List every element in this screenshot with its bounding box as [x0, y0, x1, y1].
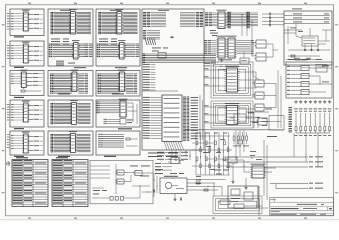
net rows D top-right	[180, 12, 203, 27]
label rows D left of MCU	[143, 97, 162, 139]
sub box N1	[230, 114, 252, 123]
latch U5	[69, 9, 77, 34]
resistor pack wires right	[294, 113, 331, 136]
output wires G	[309, 66, 332, 93]
block outline C4	[96, 131, 140, 155]
sub box D1	[158, 53, 166, 59]
label rows C1	[99, 39, 117, 45]
gate U19a	[254, 80, 266, 87]
wires A1 pins to buffer	[14, 13, 24, 29]
block outline H bottom	[228, 186, 258, 208]
wire A1 out 1	[40, 18, 44, 20]
junction column	[169, 152, 175, 160]
analog mesh links	[192, 133, 232, 175]
node labels J2 input net labels	[7, 45, 10, 59]
block outline B4	[48, 131, 93, 155]
wires A5 pins to buffer	[14, 135, 24, 148]
labels above X1	[170, 172, 184, 175]
pins B4	[51, 134, 54, 152]
wire A3 out	[25, 90, 41, 92]
wires M-top right	[227, 13, 259, 26]
value label C2	[112, 93, 124, 94]
diodes F	[304, 44, 320, 51]
pin label column G right	[289, 107, 292, 132]
value label C4	[104, 156, 116, 157]
buffer U A4	[22, 101, 30, 122]
wires F lower	[288, 24, 330, 57]
block outline A2	[10, 41, 44, 66]
value label A2	[14, 67, 24, 68]
net label A5-1	[34, 140, 40, 143]
wires U23 out	[130, 166, 153, 174]
connector pins A5	[11, 135, 13, 149]
net labels A3	[33, 73, 43, 86]
wire X1 down	[174, 194, 176, 198]
loop traces bottom	[213, 196, 262, 214]
net labels B1 lower right	[85, 44, 93, 57]
datum symbol	[6, 162, 10, 166]
buffer U10	[118, 70, 126, 92]
wires C2 left	[101, 74, 120, 93]
wire H down	[259, 186, 268, 215]
resistor R4	[126, 138, 130, 140]
latch U5b	[72, 40, 80, 59]
net label A4-1	[34, 109, 40, 112]
net labels C1 lower right	[136, 44, 140, 57]
net labels B2 right	[85, 74, 89, 94]
bus D mid	[142, 54, 216, 63]
crystal loop traces 2	[211, 101, 253, 128]
caps F input	[262, 13, 284, 27]
resistor pack RP2	[92, 197, 140, 201]
pins B3	[51, 103, 54, 124]
table header J6	[56, 157, 68, 158]
net label A5-2	[34, 144, 40, 147]
buffer U A1	[22, 10, 30, 31]
sub box F1	[302, 36, 318, 46]
pin numbers U15 right a	[183, 97, 186, 141]
title B1	[60, 10, 71, 11]
pin column M3	[247, 12, 250, 28]
wire A2 out 3	[40, 59, 44, 61]
connector pins A3	[11, 74, 13, 85]
net label A2-0	[34, 45, 40, 48]
wires risers	[214, 140, 267, 200]
wires N verticals	[230, 130, 244, 160]
bus wires B1 lower left	[53, 44, 74, 57]
wire A2 out 2	[40, 55, 44, 57]
counter U13	[217, 36, 227, 58]
wires A4 pins to buffer	[14, 104, 24, 120]
long wire right2	[270, 182, 323, 185]
output wires A2	[29, 47, 34, 61]
wire rows F	[284, 14, 330, 24]
sub rects H	[231, 189, 253, 202]
wire A5 out 1	[40, 140, 44, 142]
block outline B3	[48, 100, 93, 127]
net rows D left lower	[143, 30, 160, 39]
connector marks D	[145, 38, 156, 45]
module X1	[160, 176, 187, 194]
wires C4	[98, 135, 124, 148]
wires C1 right	[123, 12, 137, 33]
wires B4 left	[54, 134, 71, 151]
octal buffer U12	[217, 10, 227, 29]
wire A4 out 2	[40, 114, 44, 116]
ground M	[220, 59, 223, 62]
connector table J5	[12, 160, 48, 207]
connector pins B1 left	[51, 12, 54, 34]
wires B2 left	[54, 74, 73, 93]
crystal loop traces 1	[211, 62, 253, 98]
wires B4 right	[77, 134, 91, 151]
value label A4	[14, 128, 24, 129]
net label A4-0	[34, 104, 40, 107]
wires A3	[14, 74, 22, 84]
net label A4-3	[34, 118, 40, 121]
ground X1	[173, 198, 176, 201]
wires D-to-hub verticals	[172, 150, 181, 164]
gate U19c	[254, 104, 266, 111]
connector pins A1	[11, 13, 13, 30]
resistor R21	[204, 189, 208, 191]
pins C1 lower	[97, 44, 101, 58]
net labels C2 right	[134, 74, 138, 94]
gate U22b	[116, 179, 126, 184]
value label A1	[14, 36, 24, 37]
components in loop	[220, 200, 262, 209]
bus wires B1 right	[77, 12, 91, 33]
value label B1	[74, 67, 86, 68]
wires C2 right	[126, 74, 133, 93]
buffer U A2	[22, 42, 30, 63]
title C1	[110, 10, 121, 11]
wire A4 out 0	[40, 105, 44, 107]
label rows D mid2	[143, 64, 156, 90]
output wires A5	[29, 137, 34, 151]
analog mesh vertical wires	[196, 132, 230, 175]
block outline B2	[48, 71, 93, 97]
block outline A3	[10, 71, 44, 96]
labels M cluster	[210, 30, 218, 36]
long wire right3	[276, 184, 323, 189]
net label A1-0	[34, 13, 40, 16]
value label C1	[115, 67, 127, 68]
pin fan U15 bottom	[164, 142, 184, 151]
wire A2 out 1	[40, 50, 44, 52]
wires B3 right	[78, 103, 91, 123]
wires B3 left	[54, 103, 72, 123]
latch U9b	[118, 40, 126, 59]
capacitor C12	[180, 198, 181, 201]
wire A3 vert	[23, 88, 25, 90]
gate U19b	[254, 92, 266, 99]
regulator U30	[250, 164, 265, 178]
wires C3 lower	[104, 119, 121, 124]
counter U14	[227, 36, 237, 58]
wires U19	[252, 83, 276, 108]
sub box C3b	[120, 119, 133, 125]
bus wires B1 left	[54, 12, 71, 33]
resistor R3	[21, 90, 25, 92]
block outline B1	[48, 9, 93, 66]
wires right of U15	[200, 95, 203, 140]
ground PW1	[231, 180, 234, 183]
block outline C2	[96, 71, 140, 97]
component row G below	[295, 100, 332, 104]
output wires A3	[27, 74, 33, 86]
wires gate area left	[90, 164, 116, 194]
wires B2 right	[78, 74, 84, 93]
pins C2	[98, 74, 101, 94]
wire A1 out 0	[40, 14, 44, 16]
latch U9	[115, 9, 123, 34]
title G	[295, 59, 307, 60]
pins C1	[98, 12, 101, 34]
wire A2 out 0	[40, 46, 44, 48]
value label B2	[58, 93, 70, 94]
wire A1 out 3	[40, 27, 44, 29]
wires bottom net	[187, 176, 226, 190]
labels mesh right	[214, 151, 262, 174]
labels N1 area	[248, 112, 260, 128]
flip-flop U18	[255, 53, 268, 61]
value label C3	[118, 128, 132, 129]
pins D mid	[143, 54, 145, 63]
block outline A1	[10, 9, 44, 36]
net label A5-0	[34, 135, 40, 138]
net labels M-top left	[205, 13, 216, 27]
wire A4 out 3	[40, 118, 44, 120]
output wires A4	[29, 106, 34, 120]
node D sheet label	[171, 37, 174, 39]
net labels M-mid left	[204, 40, 216, 54]
wires C1 lower	[101, 44, 120, 57]
node labels J4 input net labels	[7, 134, 10, 148]
labels C4	[98, 134, 103, 147]
microprocessor U15	[162, 95, 182, 142]
node labels J1 input net labels	[7, 13, 10, 29]
oscillator Y2	[225, 103, 240, 124]
wires into loop 1	[204, 68, 256, 88]
block outline C3	[96, 100, 140, 127]
value label B4	[58, 156, 70, 157]
block outline D	[142, 9, 204, 150]
gate column G	[301, 66, 309, 95]
output wires A1	[29, 15, 34, 29]
wires ladder drops	[294, 133, 318, 167]
wire A5 out 3	[40, 149, 44, 151]
net label A1-3	[34, 27, 40, 30]
buffer U6	[70, 70, 78, 92]
power components	[222, 157, 244, 163]
labels F bottom	[288, 58, 322, 61]
net label A1-2	[34, 22, 40, 25]
loop area label	[218, 59, 232, 60]
net label A2-3	[34, 59, 40, 62]
block outline A5	[10, 131, 44, 155]
resistor RF1	[291, 55, 295, 57]
wires C1 left	[101, 12, 117, 33]
capacitor C13	[153, 190, 154, 193]
resistor R20	[196, 182, 200, 184]
wire A5 out 2	[40, 145, 44, 147]
wires F mid extra	[284, 26, 332, 60]
pin numbers U15 right b	[187, 97, 190, 141]
buffer U A5	[22, 132, 30, 153]
connector pins A2	[11, 45, 13, 59]
sub box N2	[246, 109, 284, 137]
wires U22	[126, 173, 136, 182]
table header J5	[16, 157, 28, 158]
wires U20	[250, 121, 281, 123]
wires C3 right	[128, 103, 138, 124]
input wires G	[287, 66, 301, 95]
labels under U15	[148, 153, 178, 158]
label row G below	[294, 109, 331, 112]
mesh fan from U15	[185, 150, 190, 160]
pins B2	[50, 74, 53, 94]
net labels U15 right	[191, 97, 199, 139]
net hub labels	[155, 152, 188, 171]
pins B1 lower	[49, 44, 53, 58]
wire C4	[126, 139, 138, 146]
wires left of X1	[153, 173, 157, 197]
net label A1-1	[34, 18, 40, 21]
title block	[270, 198, 334, 216]
flip-flop U17	[255, 40, 268, 48]
long wires right1	[226, 156, 323, 167]
buffer U A3	[20, 70, 28, 88]
wire bus center horizontal	[185, 129, 284, 131]
labels gate area bottom left	[92, 188, 107, 194]
block outline G right	[286, 62, 332, 98]
wires M drops	[242, 15, 252, 36]
node labels J3 input net labels	[7, 104, 10, 120]
sub box M6	[240, 52, 249, 64]
wire A4 out 1	[40, 109, 44, 111]
wires into loop 2	[204, 105, 254, 123]
wires center verticals	[253, 70, 281, 128]
wire A1 out 2	[40, 23, 44, 25]
gate U20	[257, 118, 269, 125]
labels D mid	[152, 48, 168, 52]
net label A2-1	[34, 50, 40, 53]
wires M-mid right	[237, 40, 254, 54]
wires U17 U18	[252, 28, 278, 57]
ground PW2	[244, 186, 247, 189]
net labels B1 right	[89, 12, 91, 34]
wires A2 pins to buffer	[14, 45, 24, 58]
value label A5	[14, 156, 24, 157]
block outline A4	[10, 100, 44, 127]
labels B1 lower	[56, 61, 75, 66]
wire A5 out 0	[40, 136, 44, 138]
connector pins A4	[11, 104, 13, 121]
wires C1 lower right	[125, 44, 135, 57]
sub box G1	[316, 65, 327, 73]
wires C3 left	[100, 102, 120, 113]
wires power	[233, 160, 276, 186]
title F	[292, 8, 302, 9]
block outline F top-right	[284, 11, 332, 65]
value label A3	[14, 97, 24, 98]
labels gate area	[140, 169, 163, 176]
wire mesh gate area bottom	[132, 185, 152, 198]
buffer U8	[69, 131, 77, 152]
block outline C1	[96, 9, 140, 66]
block outline gate area	[90, 160, 153, 204]
net label A4-2	[34, 113, 40, 116]
shift register U11	[119, 99, 128, 117]
oscillator Y1	[225, 66, 240, 92]
net label A2-2	[34, 54, 40, 57]
latch U7	[70, 100, 78, 124]
title D	[158, 10, 169, 11]
gate U28	[168, 158, 184, 164]
resistor row N3	[233, 132, 249, 146]
connector table J6	[52, 160, 88, 207]
bus wires B1 lower right	[79, 44, 89, 57]
label rows B1 bottom	[51, 39, 69, 45]
gate U23	[134, 171, 144, 176]
net rows D top-left	[143, 12, 166, 27]
pin column M2	[228, 12, 231, 28]
pins C3	[97, 102, 100, 114]
label rows M below	[204, 61, 225, 71]
gate U22a	[116, 170, 126, 175]
sub box line D	[142, 90, 178, 92]
net label A5-3	[34, 149, 40, 152]
